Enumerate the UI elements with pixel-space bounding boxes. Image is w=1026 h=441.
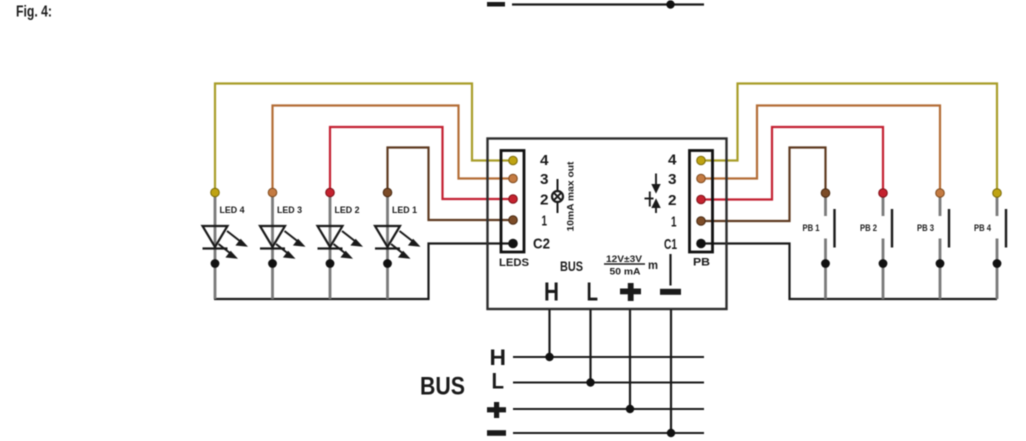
LED1 diode triangle — [375, 226, 400, 247]
svg-text:LED 3: LED 3 — [277, 205, 302, 216]
wire orange: LEDS pin3 to LED3 anode — [273, 106, 514, 193]
wire gray PB3 upper — [939, 193, 942, 216]
wire brown: PB pin1 to PB1 — [701, 148, 826, 222]
fraction bar — [604, 263, 645, 265]
LEDS pin C2 dot — [508, 239, 518, 249]
svg-text:LED 2: LED 2 — [335, 205, 360, 216]
connector PB box — [690, 151, 713, 253]
wire module - to bus - — [670, 310, 672, 434]
svg-text:L: L — [587, 277, 599, 307]
svg-text:m: m — [648, 258, 658, 272]
PB pin 2 dot — [697, 195, 706, 204]
PB 3 — [917, 189, 949, 299]
lamp symbol (10mA max out indicator) — [552, 179, 563, 213]
wire module H to bus H — [548, 310, 550, 358]
junction L — [586, 378, 594, 386]
svg-text:C2: C2 — [533, 236, 550, 253]
LED1 emission arrows — [391, 231, 418, 258]
svg-text:C1: C1 — [664, 236, 677, 253]
PB pin 3 dot — [697, 174, 706, 183]
svg-text:LEDS: LEDS — [499, 257, 529, 269]
PB1 actuator bar — [833, 209, 835, 248]
svg-text:LED 1: LED 1 — [392, 205, 418, 216]
junction H — [545, 353, 553, 361]
LED2 cathode bar — [318, 247, 343, 249]
PB2 actuator bar — [891, 209, 893, 248]
LEDS pin 2 dot — [509, 195, 518, 204]
PB4 top node (yellow) — [993, 189, 1002, 198]
PB1 top node (brown) — [821, 189, 830, 198]
PB4 actuator bar — [1005, 209, 1007, 248]
svg-text:2: 2 — [668, 192, 677, 209]
svg-text:PB: PB — [693, 257, 710, 269]
upper bus minus wire — [512, 3, 704, 5]
wire orange: PB pin3 to PB3 — [701, 106, 940, 194]
upper bus minus label (remnant of figure above) — [487, 2, 505, 7]
LEDS pin 1 dot — [509, 216, 518, 225]
PB pin 1 dot — [697, 217, 706, 226]
svg-text:3: 3 — [540, 171, 549, 188]
LED1 anode node (brown) — [383, 188, 392, 197]
wire gray PB1 lower — [824, 239, 827, 300]
LED4 diode triangle — [203, 226, 228, 247]
LED 4 — [203, 188, 246, 299]
PB 1 — [803, 189, 835, 299]
wire gray LED2 column — [329, 193, 332, 300]
LED2 diode triangle — [318, 226, 343, 247]
PB2 bottom junction — [879, 259, 888, 268]
internal push-button actuate symbol — [645, 174, 660, 214]
LED3 emission arrows — [276, 231, 303, 258]
PB1 bottom junction — [821, 259, 830, 268]
wire module + to bus + — [629, 310, 631, 410]
PB3 top node (orange) — [936, 189, 945, 198]
svg-text:L: L — [492, 369, 505, 394]
wire gray PB4 upper — [996, 193, 999, 216]
module pin label - — [660, 289, 681, 295]
internal wire C1 to bus minus — [669, 254, 671, 286]
bus label + — [487, 402, 506, 418]
svg-text:PB 4: PB 4 — [974, 223, 992, 234]
svg-text:4: 4 — [668, 152, 677, 169]
svg-text:H: H — [490, 345, 507, 370]
svg-text:50 mA: 50 mA — [610, 267, 641, 278]
PB 4 — [974, 189, 1006, 299]
svg-text:PB 2: PB 2 — [860, 223, 877, 234]
PB2 top node (red) — [879, 189, 888, 198]
LED 3 — [260, 188, 303, 299]
LED2 anode node (red) — [326, 188, 335, 197]
wire red: LEDS pin2 to LED2 anode — [330, 127, 513, 199]
svg-text:10mA max out: 10mA max out — [566, 161, 577, 232]
PB pin 4 dot — [697, 156, 706, 165]
LEDS pin 4 dot — [509, 156, 518, 165]
wire black: PB C1 to PB common rail — [701, 244, 997, 300]
LEDS pin 3 dot — [509, 174, 518, 183]
connector LEDS box — [501, 151, 524, 253]
wire yellow: LEDS pin4 to LED4 anode — [215, 84, 513, 193]
wire gray LED3 column — [271, 193, 274, 300]
wire gray LED1 column — [386, 193, 389, 300]
bus label - — [487, 430, 506, 436]
svg-text:BUS: BUS — [420, 373, 465, 401]
svg-text:4: 4 — [540, 152, 549, 169]
LED 2 — [318, 188, 361, 299]
module pin label + — [620, 283, 641, 301]
LED4 emission arrows — [219, 231, 246, 258]
PB 2 — [860, 189, 892, 299]
wire gray LED4 column — [214, 193, 217, 300]
PB4 bottom junction — [993, 259, 1002, 268]
svg-text:1: 1 — [542, 213, 548, 230]
bus wire H — [513, 356, 704, 358]
LED4 anode node (yellow) — [211, 188, 220, 197]
LED 1 — [375, 188, 418, 299]
LED4 cathode bar — [203, 247, 228, 249]
wire brown: LEDS pin1 to LED1 anode — [388, 148, 514, 221]
svg-text:3: 3 — [668, 171, 677, 188]
PB pin C1 dot — [696, 239, 706, 249]
wire gray PB3 lower — [939, 239, 942, 300]
LED3 anode node (orange) — [268, 188, 277, 197]
wire gray PB4 lower — [996, 239, 999, 300]
PB3 actuator bar — [948, 209, 950, 248]
junction - — [667, 429, 675, 437]
LED3 cathode junction — [268, 259, 277, 268]
svg-text:H: H — [544, 277, 559, 307]
wire gray PB2 lower — [882, 239, 885, 300]
junction + — [626, 405, 634, 413]
svg-text:LED 4: LED 4 — [220, 205, 246, 216]
LED1 cathode junction — [383, 259, 392, 268]
LED4 cathode junction — [211, 259, 220, 268]
svg-text:PB 3: PB 3 — [917, 223, 934, 234]
wire yellow: PB pin4 to PB4 — [701, 84, 997, 194]
wire module L to bus L — [589, 310, 591, 383]
module box U1 — [488, 139, 727, 310]
svg-text:2: 2 — [540, 192, 549, 209]
bus wire + — [513, 408, 704, 410]
svg-text:1: 1 — [671, 214, 677, 231]
PB3 bottom junction — [936, 259, 945, 268]
wire gray PB1 upper — [824, 193, 827, 216]
LED3 diode triangle — [260, 226, 285, 247]
svg-text:Fig. 4:: Fig. 4: — [16, 4, 52, 21]
bus wire - — [513, 432, 704, 434]
wire black: LEDS C2 to LED cathode rail — [214, 244, 513, 300]
LED3 cathode bar — [260, 247, 285, 249]
junction on upper bus minus wire — [666, 0, 674, 8]
wire red: PB pin2 to PB2 — [701, 127, 883, 200]
svg-text:BUS: BUS — [560, 259, 583, 274]
svg-text:PB 1: PB 1 — [803, 223, 821, 234]
LED1 cathode bar — [375, 247, 400, 249]
bus wire L — [513, 382, 704, 384]
LED2 emission arrows — [334, 231, 361, 258]
wire gray PB2 upper — [882, 193, 885, 216]
LED2 cathode junction — [326, 259, 335, 268]
